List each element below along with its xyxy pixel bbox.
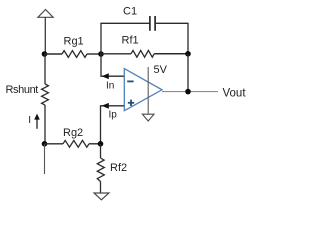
op-amp U1: [124, 69, 162, 111]
node F: non-inverting divider junction: [98, 141, 104, 147]
node E: bottom left junction: [42, 141, 48, 147]
wire: Rf1 to feedback rail junction: [154, 53, 188, 55]
resistor Rg2: [63, 140, 89, 147]
op-amp inverting pin marker (minus): [127, 80, 133, 82]
node B: inverting-side junction: [98, 51, 104, 57]
wire: supply arrow to left top junction: [44, 17, 46, 54]
svg-text:Rg2: Rg2: [63, 127, 83, 139]
svg-text:In: In: [106, 81, 114, 92]
capacitor C1: [149, 16, 151, 31]
resistor Rg1: [62, 51, 87, 58]
svg-text:Ip: Ip: [109, 110, 118, 121]
wire: feedback rail down to output node: [187, 54, 189, 92]
node D: output junction: [185, 89, 191, 95]
wire: Rg2 to node F: [89, 143, 101, 145]
svg-text:I: I: [28, 115, 31, 126]
5V supply stub through op-amp: [147, 67, 149, 114]
svg-text:Rf2: Rf2: [110, 162, 127, 174]
node A: left top junction: [42, 51, 48, 57]
svg-text:Rg1: Rg1: [64, 36, 84, 48]
ground (bottom): [94, 193, 109, 200]
wire: C1 to right vertical feedback rail: [155, 23, 188, 54]
wire: node E to Rg2: [45, 143, 64, 145]
power arrow (supply terminal, up triangle): [38, 10, 53, 18]
svg-text:Vout: Vout: [223, 88, 247, 100]
wire: left rail from node A down to Rshunt: [44, 54, 46, 84]
current arrow In: [102, 73, 109, 79]
svg-text:Rshunt: Rshunt: [6, 84, 39, 96]
wire: node B to Rf1: [101, 53, 131, 55]
wire: Rg1 to inverting node: [87, 53, 101, 55]
wire: op-amp output to Vout: [162, 91, 218, 93]
resistor Rf2: [97, 158, 104, 182]
svg-text:5V: 5V: [154, 64, 168, 76]
wire: Rf2 to ground: [100, 182, 102, 194]
resistor Rshunt: [42, 84, 49, 105]
svg-text:Rf1: Rf1: [122, 35, 139, 47]
wire: open stub below node E: [44, 144, 46, 174]
op-amp non-inverting pin marker (plus): [128, 102, 134, 104]
wire: Rshunt to bottom left junction: [44, 105, 46, 144]
current arrow Ip: [102, 103, 109, 109]
resistor Rf1: [131, 50, 154, 57]
ground (op-amp negative supply): [142, 114, 154, 121]
svg-text:C1: C1: [123, 6, 137, 18]
node C: feedback rail junction: [185, 51, 191, 57]
wire: In branch (node B down and right to op-amp inverting input): [101, 54, 124, 76]
wire: Ip branch (lower junction up and right to op-amp non-inverting input): [101, 106, 125, 144]
wire: node F down to Rf2: [100, 144, 102, 158]
wire: node B up to C1 branch: [101, 23, 150, 54]
wire: junction to Rg1: [45, 53, 63, 55]
